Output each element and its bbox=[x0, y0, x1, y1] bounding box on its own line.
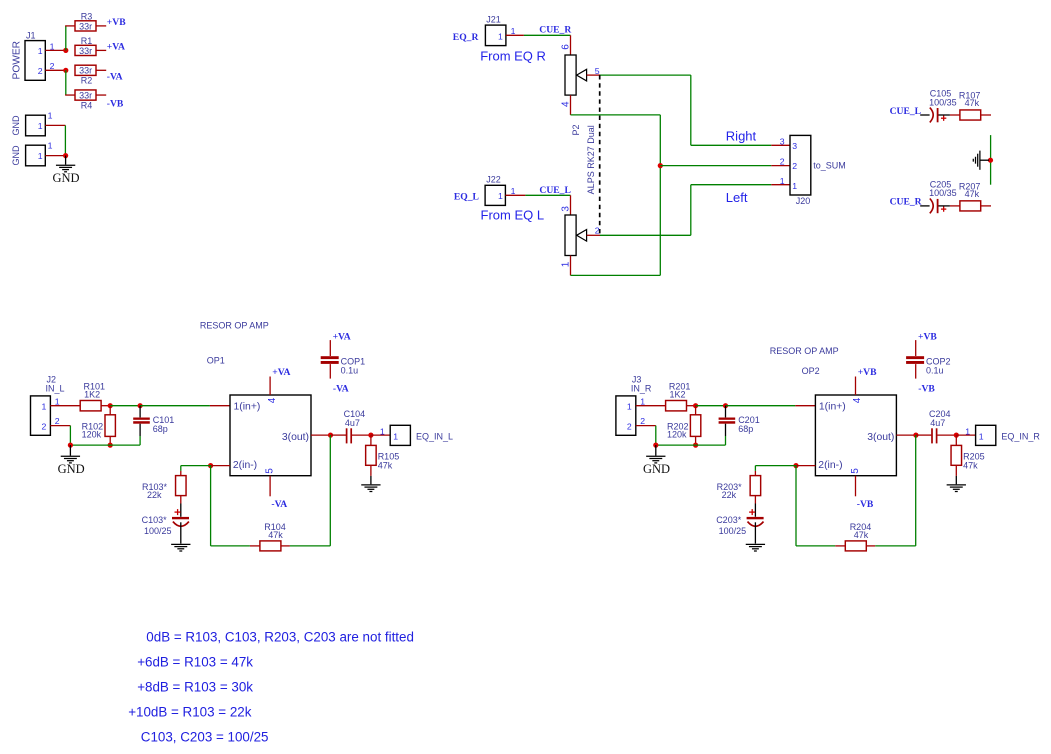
svg-text:+8dB = R103 = 30k: +8dB = R103 = 30k bbox=[137, 680, 253, 695]
svg-text:-VA: -VA bbox=[271, 499, 287, 510]
node D output cap bbox=[368, 433, 373, 438]
wire cue ground rail bbox=[990, 135, 992, 185]
wire J1 pin2 to node bbox=[45, 69, 66, 71]
connector J3 bbox=[616, 374, 652, 435]
pin number EQ_IN 1 bbox=[380, 427, 385, 437]
potentiometer P2 upper bbox=[565, 55, 587, 95]
svg-text:47k: 47k bbox=[963, 460, 978, 470]
net label EQ_R bbox=[453, 32, 480, 43]
svg-text:22k: 22k bbox=[147, 490, 162, 500]
capacitor C101 bbox=[133, 406, 174, 445]
net label CUE_R bbox=[539, 24, 572, 35]
pin 2 number J1 bbox=[50, 61, 55, 71]
svg-text:2: 2 bbox=[38, 66, 43, 76]
net label -VB bbox=[107, 99, 124, 110]
net label -VA bbox=[107, 72, 123, 83]
svg-text:2(in-): 2(in-) bbox=[233, 460, 257, 471]
svg-text:4u7: 4u7 bbox=[345, 418, 360, 428]
svg-text:+VA: +VA bbox=[333, 331, 351, 342]
pin number J20-3 bbox=[780, 136, 785, 146]
pin number 3 bbox=[561, 206, 572, 212]
wire op-amp out to node C bbox=[896, 434, 916, 436]
pin number 1 lower pot bbox=[561, 261, 572, 267]
wire node A to node B bbox=[696, 405, 726, 407]
wire ground rail bbox=[70, 444, 140, 446]
connector GND 2 bbox=[11, 145, 45, 166]
node C output bbox=[913, 433, 918, 438]
svg-text:OP1: OP1 bbox=[207, 356, 225, 366]
resistor R105 bbox=[366, 435, 400, 476]
svg-text:J20: J20 bbox=[796, 196, 811, 206]
svg-text:2: 2 bbox=[627, 422, 632, 432]
svg-text:-VB: -VB bbox=[857, 499, 874, 510]
svg-text:IN_L: IN_L bbox=[46, 383, 65, 393]
svg-text:+VA: +VA bbox=[107, 42, 125, 53]
svg-text:3: 3 bbox=[780, 136, 785, 146]
resistor R1 bbox=[75, 36, 106, 56]
svg-text:47k: 47k bbox=[268, 530, 283, 540]
label RESOR OP AMP bbox=[200, 321, 269, 331]
node E inverting input bbox=[793, 463, 798, 468]
ground symbol cue (rotated) bbox=[973, 151, 989, 170]
node cue ground junction bbox=[988, 158, 993, 163]
resistor R104 bbox=[260, 522, 290, 551]
wire pot pin1 to common bbox=[571, 256, 661, 276]
svg-text:-VB: -VB bbox=[918, 384, 935, 395]
svg-text:+VA: +VA bbox=[272, 367, 290, 378]
wire node D to EQ_IN connector bbox=[956, 434, 975, 436]
svg-text:0dB = R103, C103, R203, C203 a: 0dB = R103, C103, R203, C203 are not fit… bbox=[146, 629, 414, 644]
connector EQ_IN_R bbox=[976, 425, 1041, 445]
svg-text:P2: P2 bbox=[571, 124, 581, 135]
svg-text:to_SUM: to_SUM bbox=[813, 161, 846, 171]
connector J20 bbox=[790, 135, 846, 206]
svg-text:33r: 33r bbox=[79, 66, 92, 76]
resistor R207 bbox=[959, 182, 991, 211]
svg-text:Right: Right bbox=[726, 128, 757, 143]
pin number 1 bbox=[640, 396, 645, 406]
wire CUE_R to capacitor bbox=[920, 205, 929, 207]
svg-text:RESOR OP AMP: RESOR OP AMP bbox=[200, 321, 269, 331]
svg-text:4: 4 bbox=[267, 397, 278, 403]
pin number 5 bbox=[850, 468, 861, 474]
svg-text:+VB: +VB bbox=[858, 367, 877, 378]
wire op-amp pin4 to VB bbox=[855, 377, 857, 396]
note line 4 bbox=[128, 704, 252, 719]
wire C105 to R107 bbox=[939, 114, 960, 116]
svg-text:POWER: POWER bbox=[11, 41, 22, 79]
net label CUE_L bbox=[890, 106, 921, 117]
capacitor COP1 bbox=[321, 331, 365, 394]
svg-text:1: 1 bbox=[38, 46, 43, 56]
pin number 2 bbox=[640, 416, 645, 426]
pin number 4 bbox=[267, 397, 278, 403]
svg-text:-VA: -VA bbox=[107, 72, 123, 83]
svg-text:GND: GND bbox=[53, 171, 80, 185]
resistor R201 bbox=[666, 382, 696, 411]
wire pot pin2 wiper to Left bbox=[587, 185, 790, 236]
connector J2 bbox=[31, 374, 65, 435]
svg-text:R3: R3 bbox=[81, 12, 93, 22]
svg-text:ALPS RK27 Dual: ALPS RK27 Dual bbox=[586, 125, 596, 194]
svg-text:1: 1 bbox=[38, 121, 43, 131]
svg-text:2: 2 bbox=[595, 226, 600, 236]
node C output bbox=[328, 433, 333, 438]
pin number J21-1 bbox=[511, 26, 516, 36]
svg-text:EQ_IN_L: EQ_IN_L bbox=[416, 432, 453, 442]
capacitor C105 (polarized) bbox=[929, 88, 957, 122]
pin number J20-1 bbox=[780, 176, 785, 186]
net label -VA bbox=[271, 499, 287, 510]
capacitor C205 (polarized) bbox=[929, 179, 957, 213]
svg-text:2: 2 bbox=[41, 422, 46, 432]
svg-text:1: 1 bbox=[640, 396, 645, 406]
resistor R203* bbox=[717, 476, 761, 504]
potentiometer P2 lower bbox=[565, 215, 587, 256]
ground symbol GND bbox=[53, 156, 80, 185]
wire op-amp in- stub bbox=[796, 465, 815, 467]
svg-text:EQ_L: EQ_L bbox=[454, 191, 479, 202]
resistor R4 bbox=[75, 90, 106, 111]
wire op-amp pin5 to -VA bbox=[269, 476, 271, 497]
wire pot pin4 to common bbox=[571, 95, 661, 275]
svg-text:CUE_L: CUE_L bbox=[539, 185, 570, 196]
svg-text:1: 1 bbox=[41, 402, 46, 412]
net label EQ_L bbox=[454, 191, 479, 202]
node in+ A bbox=[693, 403, 698, 408]
wire GND2 to node bbox=[45, 155, 65, 157]
net label +VA bbox=[107, 42, 125, 53]
svg-text:From EQ R: From EQ R bbox=[480, 49, 546, 64]
svg-text:C103, C203 = 100/25: C103, C203 = 100/25 bbox=[141, 730, 269, 745]
svg-text:68p: 68p bbox=[738, 424, 753, 434]
svg-text:CUE_R: CUE_R bbox=[539, 24, 572, 35]
node pin2 junction bbox=[63, 68, 68, 73]
node in+ A bbox=[108, 403, 113, 408]
wire J22 to pot pin3 / net CUE_L bbox=[505, 195, 570, 215]
op-amp OP1 bbox=[230, 395, 311, 476]
svg-text:5: 5 bbox=[850, 468, 861, 474]
svg-text:GND: GND bbox=[11, 115, 21, 136]
resistor R102 bbox=[82, 406, 116, 445]
pin number GND2 bbox=[48, 141, 53, 151]
wire node to R4 bbox=[65, 70, 75, 95]
pin number J22-1 bbox=[511, 186, 516, 196]
resistor R205 bbox=[951, 435, 985, 476]
capacitor C203* (polarized) bbox=[716, 504, 763, 544]
ground symbol C1x3 bbox=[171, 544, 190, 551]
svg-text:+6dB = R103 = 47k: +6dB = R103 = 47k bbox=[137, 654, 253, 669]
note line 2 bbox=[137, 654, 253, 669]
wire feedback to node C bbox=[875, 435, 915, 546]
node in+ B bbox=[138, 403, 143, 408]
pin number 1 bbox=[55, 396, 60, 406]
svg-text:C103*: C103* bbox=[142, 515, 168, 525]
svg-text:1: 1 bbox=[792, 181, 797, 191]
node GND junction bbox=[63, 153, 68, 158]
svg-text:C203*: C203* bbox=[716, 515, 742, 525]
resistor R3 bbox=[75, 12, 106, 32]
pin number 6 bbox=[561, 44, 572, 50]
connector J1 bbox=[11, 31, 45, 81]
svg-text:OP2: OP2 bbox=[802, 366, 820, 376]
capacitor C103* (polarized) bbox=[142, 504, 189, 544]
resistor R101 bbox=[80, 382, 110, 411]
node E inverting input bbox=[208, 463, 213, 468]
wire CUE_L to capacitor bbox=[920, 114, 929, 116]
svg-text:3: 3 bbox=[792, 141, 797, 151]
wire J pin1 to R201 bbox=[636, 405, 666, 407]
svg-text:1: 1 bbox=[979, 432, 984, 442]
svg-text:5: 5 bbox=[265, 468, 276, 474]
label From EQ R bbox=[480, 49, 546, 64]
svg-text:100/35: 100/35 bbox=[929, 97, 957, 107]
svg-text:4: 4 bbox=[852, 397, 863, 403]
svg-text:33r: 33r bbox=[79, 46, 92, 56]
wire J pin1 to R101 bbox=[50, 405, 80, 407]
wire feedback to node C bbox=[290, 435, 330, 546]
capacitor C104 bbox=[331, 409, 371, 444]
label Left bbox=[726, 190, 748, 205]
pin 1 number J1 bbox=[50, 41, 55, 51]
connector J21 bbox=[485, 14, 506, 45]
pin number 5 bbox=[265, 468, 276, 474]
svg-text:J22: J22 bbox=[486, 175, 501, 185]
wire op-amp pin4 to VA bbox=[269, 377, 271, 396]
svg-text:+10dB = R103 = 22k: +10dB = R103 = 22k bbox=[128, 704, 252, 719]
svg-text:EQ_IN_R: EQ_IN_R bbox=[1001, 432, 1040, 442]
label OP1 bbox=[207, 356, 225, 366]
svg-text:1: 1 bbox=[55, 396, 60, 406]
svg-text:CUE_L: CUE_L bbox=[890, 106, 921, 117]
svg-text:1: 1 bbox=[380, 427, 385, 437]
wire node B to op-amp in+ bbox=[726, 405, 816, 407]
svg-text:Left: Left bbox=[726, 190, 748, 205]
svg-text:1K2: 1K2 bbox=[84, 390, 100, 400]
net label -VB bbox=[857, 499, 874, 510]
pin number 2 bbox=[595, 226, 600, 236]
wire node E to R203 bbox=[755, 466, 796, 476]
svg-text:47k: 47k bbox=[965, 98, 980, 108]
svg-text:R2: R2 bbox=[81, 76, 93, 86]
svg-text:1: 1 bbox=[38, 151, 43, 161]
connector GND 1 bbox=[11, 115, 45, 136]
pin number 2 bbox=[55, 416, 60, 426]
svg-text:2: 2 bbox=[780, 156, 785, 166]
capacitor C204 bbox=[916, 409, 956, 444]
svg-text:1: 1 bbox=[48, 141, 53, 151]
svg-text:-VB: -VB bbox=[107, 99, 124, 110]
wire C205 to R207 bbox=[939, 205, 960, 207]
svg-text:GND: GND bbox=[643, 462, 670, 476]
label ALPS RK27 Dual bbox=[586, 125, 596, 194]
svg-text:EQ_R: EQ_R bbox=[453, 32, 480, 43]
wire node E to R103 bbox=[181, 466, 211, 476]
svg-text:1: 1 bbox=[498, 31, 503, 41]
svg-text:-VA: -VA bbox=[333, 384, 349, 395]
svg-text:33r: 33r bbox=[79, 21, 92, 31]
svg-text:33r: 33r bbox=[79, 90, 92, 100]
svg-text:2: 2 bbox=[55, 416, 60, 426]
wire pot pin5 wiper to Right bbox=[587, 75, 790, 145]
pin number 5 bbox=[595, 66, 600, 76]
svg-text:GND: GND bbox=[11, 145, 21, 166]
svg-text:4u7: 4u7 bbox=[930, 418, 945, 428]
capacitor C201 bbox=[719, 406, 760, 445]
svg-text:J1: J1 bbox=[26, 31, 36, 41]
wire op-amp pin5 to -VB bbox=[855, 476, 857, 497]
net label CUE_R bbox=[890, 197, 923, 208]
wire GND vertical bbox=[64, 125, 66, 155]
connector J22 bbox=[485, 175, 505, 206]
net label +VA bbox=[272, 367, 290, 378]
node R1x2 bottom bbox=[108, 443, 113, 448]
wire node B to op-amp in+ bbox=[140, 405, 230, 407]
node in+ B bbox=[723, 403, 728, 408]
svg-text:47k: 47k bbox=[854, 530, 869, 540]
svg-text:100/25: 100/25 bbox=[719, 526, 747, 536]
pin number GND1 bbox=[48, 110, 53, 120]
svg-text:2: 2 bbox=[792, 161, 797, 171]
svg-text:1: 1 bbox=[498, 191, 503, 201]
svg-text:0.1u: 0.1u bbox=[926, 366, 944, 376]
svg-text:1: 1 bbox=[965, 427, 970, 437]
resistor R202 bbox=[667, 406, 701, 445]
ground symbol R1x5 bbox=[361, 476, 380, 492]
wire J21 to pot pin6 / net CUE_R bbox=[506, 35, 571, 55]
svg-text:CUE_R: CUE_R bbox=[890, 197, 923, 208]
pin number EQ_IN 1 bbox=[965, 427, 970, 437]
svg-text:3(out): 3(out) bbox=[282, 432, 309, 443]
svg-text:47k: 47k bbox=[378, 460, 393, 470]
label Right bbox=[726, 128, 757, 143]
svg-text:+VB: +VB bbox=[107, 17, 126, 28]
wire node D to EQ_IN connector bbox=[371, 434, 390, 436]
wire GND1 to node bbox=[45, 124, 65, 126]
note line 3 bbox=[137, 680, 253, 695]
svg-text:1(in+): 1(in+) bbox=[819, 402, 846, 413]
wire common to J20 pin2 bbox=[660, 165, 790, 167]
svg-text:1: 1 bbox=[393, 432, 398, 442]
svg-text:R1: R1 bbox=[81, 36, 93, 46]
node common junction bbox=[658, 163, 663, 168]
resistor R107 bbox=[959, 91, 991, 120]
label P2 bbox=[571, 124, 581, 135]
note line 1 bbox=[146, 629, 414, 644]
svg-text:47k: 47k bbox=[965, 189, 980, 199]
svg-text:1: 1 bbox=[780, 176, 785, 186]
wire op-amp out to node C bbox=[311, 434, 331, 436]
wire J1 pin1 to node bbox=[45, 49, 66, 51]
wire ground rail bbox=[656, 444, 726, 446]
node ground rail bbox=[653, 443, 658, 448]
svg-text:120k: 120k bbox=[82, 430, 102, 440]
resistor R2 bbox=[75, 65, 106, 85]
net label +VB bbox=[107, 17, 126, 28]
wire J pin2 down bbox=[50, 426, 70, 446]
label From EQ L bbox=[481, 208, 545, 223]
ground symbol C1x3 bbox=[746, 544, 765, 551]
mechanical link dashed bbox=[599, 75, 601, 235]
svg-text:6: 6 bbox=[561, 44, 572, 50]
svg-text:RESOR OP AMP: RESOR OP AMP bbox=[770, 346, 839, 356]
svg-text:R4: R4 bbox=[81, 101, 93, 111]
wire node E to feedback bbox=[211, 466, 260, 546]
wire J pin2 down bbox=[636, 426, 656, 446]
svg-text:1K2: 1K2 bbox=[670, 390, 686, 400]
resistor R103* bbox=[142, 476, 186, 504]
node ground rail bbox=[68, 443, 73, 448]
net label +VB bbox=[858, 367, 877, 378]
ground symbol R1x5 bbox=[947, 476, 966, 492]
node pin1 junction bbox=[63, 48, 68, 53]
svg-text:1(in+): 1(in+) bbox=[234, 402, 261, 413]
svg-text:2: 2 bbox=[640, 416, 645, 426]
svg-text:100/35: 100/35 bbox=[929, 188, 957, 198]
svg-text:J21: J21 bbox=[486, 14, 501, 24]
svg-text:1: 1 bbox=[48, 110, 53, 120]
svg-text:+VB: +VB bbox=[918, 331, 937, 342]
note line 5 bbox=[141, 730, 269, 745]
resistor R204 bbox=[845, 522, 875, 551]
svg-text:22k: 22k bbox=[722, 490, 737, 500]
wire op-amp in- stub bbox=[211, 465, 230, 467]
svg-text:68p: 68p bbox=[153, 424, 168, 434]
capacitor COP2 bbox=[906, 331, 950, 394]
svg-text:GND: GND bbox=[58, 462, 85, 476]
svg-text:IN_R: IN_R bbox=[631, 383, 652, 393]
ground symbol bbox=[58, 445, 85, 476]
label RESOR OP AMP bbox=[770, 346, 839, 356]
svg-text:2(in-): 2(in-) bbox=[818, 460, 842, 471]
svg-text:From EQ L: From EQ L bbox=[481, 208, 545, 223]
wire node E to feedback bbox=[796, 466, 845, 546]
pin number J20-2 bbox=[780, 156, 785, 166]
net label CUE_L bbox=[539, 185, 570, 196]
op-amp OP2 bbox=[815, 395, 896, 476]
svg-text:1: 1 bbox=[511, 186, 516, 196]
pin number 4 bbox=[561, 101, 572, 107]
connector EQ_IN_L bbox=[390, 425, 453, 445]
wire node A to node B bbox=[110, 405, 140, 407]
svg-text:120k: 120k bbox=[667, 430, 687, 440]
wire node to R3 bbox=[65, 26, 75, 51]
pin number 4 bbox=[852, 397, 863, 403]
svg-text:1: 1 bbox=[627, 402, 632, 412]
svg-text:3: 3 bbox=[561, 206, 572, 212]
svg-text:3(out): 3(out) bbox=[867, 432, 894, 443]
ground symbol bbox=[643, 445, 670, 476]
node R1x2 bottom bbox=[693, 443, 698, 448]
svg-text:0.1u: 0.1u bbox=[341, 366, 359, 376]
svg-text:100/25: 100/25 bbox=[144, 526, 172, 536]
label OP2 bbox=[802, 366, 820, 376]
node D output cap bbox=[954, 433, 959, 438]
